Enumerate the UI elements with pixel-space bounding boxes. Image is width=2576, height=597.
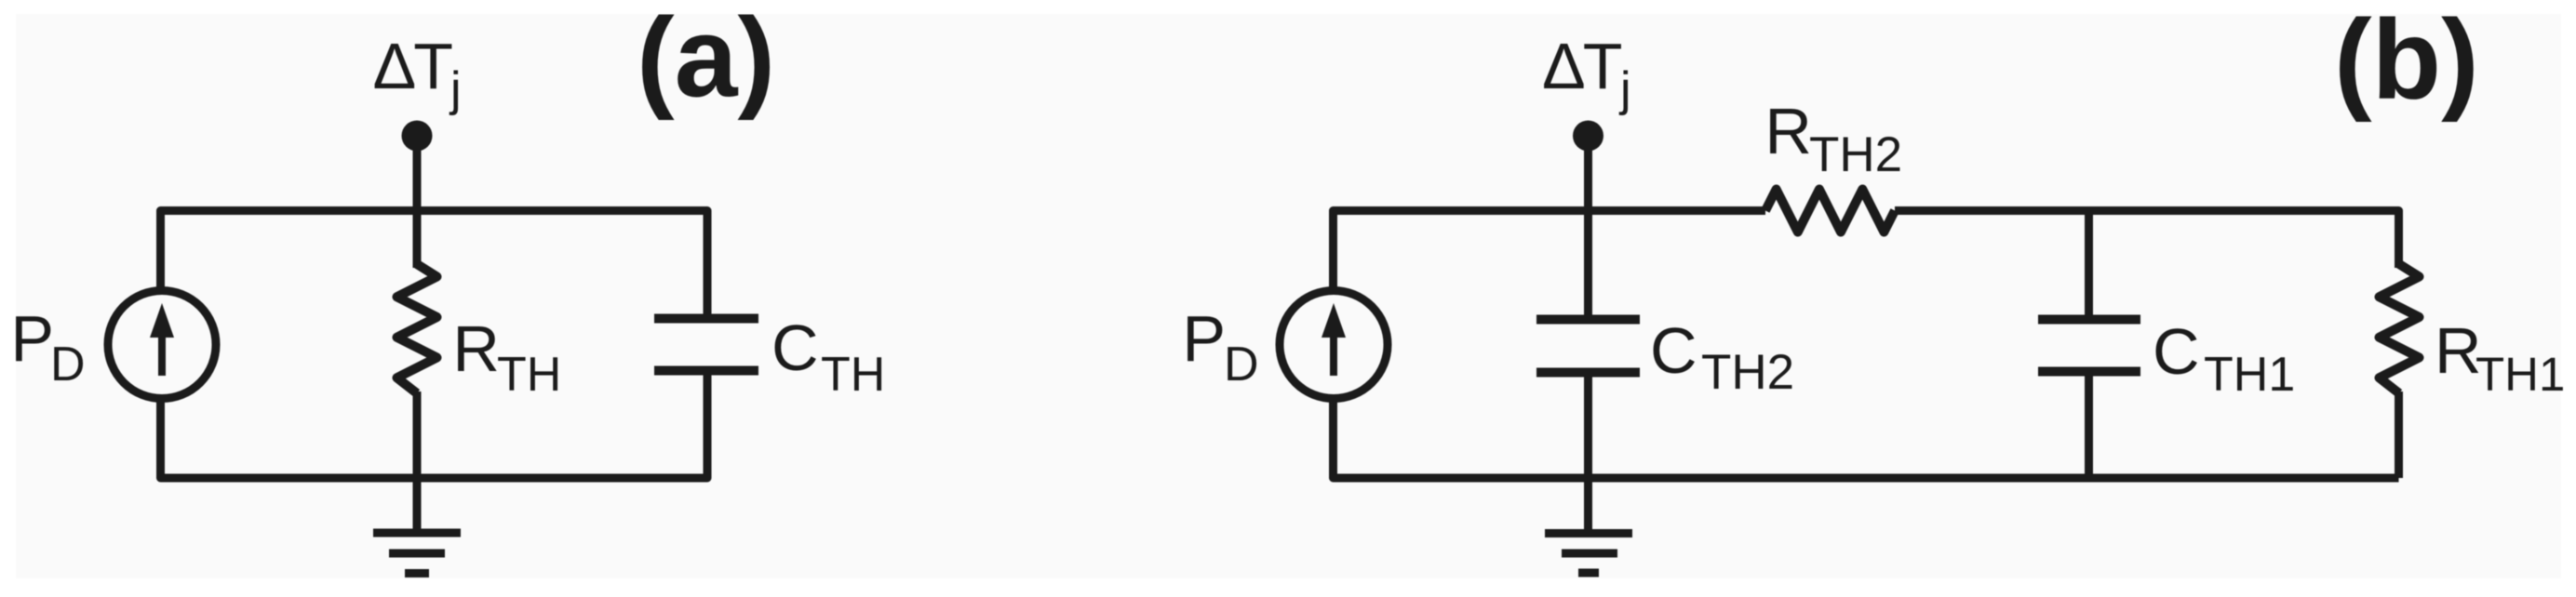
label CTH (a) — [771, 312, 885, 402]
svg-text:ΔT: ΔT — [373, 30, 453, 102]
svg-text:(b): (b) — [2334, 0, 2479, 123]
node ΔTj (b) — [1573, 121, 1603, 152]
wire: (a) resistor RTH to bottom rail — [413, 391, 422, 478]
wire: (a) node ΔTj down to resistor RTH — [413, 136, 422, 268]
label PD (b) — [1182, 302, 1258, 391]
current source PD (b) — [1280, 291, 1388, 399]
label PD (a) — [10, 302, 85, 391]
resistor RTH1 (b) — [2380, 264, 2420, 393]
svg-text:(a): (a) — [637, 0, 775, 121]
label node ΔTj (a) — [373, 30, 462, 116]
label CTH2 (b) — [1650, 314, 1794, 400]
svg-text:j: j — [1618, 62, 1631, 116]
wire: (b) capacitor CTH2 to bottom rail — [1584, 373, 1592, 479]
node ΔTj (a) — [402, 121, 433, 152]
label RTH2 (b) — [1764, 95, 1902, 182]
svg-text:TH1: TH1 — [2204, 348, 2295, 402]
wire: (a) top rail from current source to capacitor branch — [161, 211, 708, 319]
svg-text:C: C — [2153, 315, 2200, 388]
svg-text:R: R — [452, 312, 500, 385]
svg-text:R: R — [2435, 314, 2482, 387]
label RTH (a) — [452, 312, 561, 402]
current source PD (a) — [108, 291, 216, 399]
svg-text:D: D — [50, 338, 86, 391]
svg-text:TH1: TH1 — [2475, 348, 2565, 401]
svg-text:TH: TH — [821, 348, 885, 402]
svg-text:C: C — [771, 312, 819, 384]
wire: (b) top rail to capacitor CTH1 — [2085, 211, 2093, 320]
wire: (b) top rail from resistor RTH2 to right branch, down to resistor RTH1 — [1895, 211, 2399, 269]
label node ΔTj (b) — [1542, 30, 1631, 116]
capacitor CTH1 (b) — [2038, 320, 2140, 372]
resistor RTH2 (b) — [1765, 190, 1895, 232]
wire: (b) bottom rail to ground — [1584, 478, 1592, 534]
svg-text:TH: TH — [497, 348, 561, 402]
svg-text:R: R — [1764, 95, 1812, 167]
svg-text:C: C — [1650, 314, 1697, 387]
svg-text:TH2: TH2 — [1701, 345, 1794, 400]
current source arrow (a) — [150, 303, 174, 376]
svg-text:ΔT: ΔT — [1542, 30, 1622, 102]
resistor RTH (a) — [397, 264, 437, 393]
label CTH1 (b) — [2153, 315, 2295, 402]
label RTH1 (b) — [2435, 314, 2565, 401]
wire: (b) bottom rail — [1334, 403, 2399, 479]
current source arrow (b) — [1322, 303, 1346, 376]
wire: (b) capacitor CTH1 to bottom rail — [2085, 372, 2093, 479]
capacitor CTH (a) — [654, 319, 758, 371]
wire: (a) bottom rail from current source to capacitor branch — [161, 371, 708, 479]
capacitor CTH2 (b) — [1536, 320, 1640, 373]
svg-text:D: D — [1224, 338, 1259, 391]
svg-text:j: j — [449, 62, 462, 116]
svg-text:TH2: TH2 — [1809, 127, 1902, 182]
ground (b) — [1545, 534, 1632, 574]
wire: (a) bottom rail to ground — [413, 478, 422, 533]
wire: (b) node ΔTj down to capacitor CTH2 — [1584, 136, 1592, 320]
svg-text:P: P — [10, 302, 54, 375]
wire: (b) left branch + top rail up to resistor RTH2 — [1334, 211, 1766, 287]
wire: (b) resistor RTH1 to bottom rail — [2395, 391, 2403, 478]
svg-text:P: P — [1182, 302, 1226, 375]
ground (a) — [373, 533, 461, 574]
